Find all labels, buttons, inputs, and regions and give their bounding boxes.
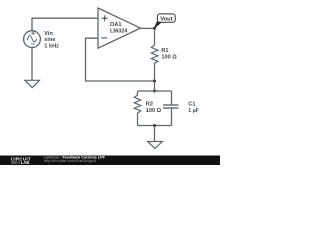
footer CircuitLab logo	[11, 157, 31, 165]
svg-text:R2: R2	[146, 102, 153, 108]
svg-text:R1: R1	[161, 48, 168, 54]
svg-text:Vout: Vout	[160, 16, 172, 22]
label R2 100 ohm	[146, 102, 162, 114]
resistor R1	[151, 28, 158, 81]
wire Vin bottom to ground	[31, 48, 33, 81]
wire top rail of parallel network	[138, 90, 172, 92]
svg-text:100 Ω: 100 Ω	[161, 54, 177, 60]
op-amp OA1 LM324	[98, 8, 141, 48]
junction node at op-amp output	[153, 27, 156, 30]
svg-text:http://circuitlab.com/c5uw3c4g: http://circuitlab.com/c5uw3c4gcz5	[44, 159, 96, 163]
ground (below V1)	[25, 80, 40, 87]
svg-text:1 μF: 1 μF	[188, 108, 199, 114]
wire feedback from - input down and right to R1 bottom	[86, 38, 155, 81]
svg-text:sine: sine	[44, 37, 55, 43]
label OA1 LM324	[110, 22, 128, 34]
wire op-amp output to node	[141, 27, 155, 29]
label C1 1 uF	[188, 102, 199, 114]
wire node down to parallel network	[154, 81, 156, 91]
label Vin sine 1 kHz	[44, 31, 59, 49]
svg-text:OA1: OA1	[110, 22, 122, 28]
label R1 100 ohm	[161, 48, 177, 60]
wire bottom rail of parallel network	[138, 125, 172, 127]
svg-text:Vin: Vin	[44, 31, 53, 37]
junction at feedback/R1 node	[153, 80, 156, 83]
junction at top rail	[153, 90, 156, 93]
junction at bottom rail	[153, 124, 156, 127]
svg-text:LM324: LM324	[110, 28, 128, 34]
node Vout flag	[154, 14, 175, 28]
footer bar	[0, 156, 220, 166]
svg-text:C1: C1	[188, 102, 195, 108]
footer caption text	[44, 155, 106, 163]
ground (below R2/C1)	[148, 142, 163, 149]
svg-text:100 Ω: 100 Ω	[146, 108, 162, 114]
capacitor C1	[163, 91, 178, 126]
svg-text:1 kHz: 1 kHz	[44, 43, 59, 49]
wire Vin top to op-amp + input	[32, 18, 98, 31]
voltage source V1 Vin	[24, 31, 41, 48]
svg-text:LAB: LAB	[21, 160, 30, 165]
resistor R2	[134, 91, 140, 126]
wire bottom rail to ground	[154, 126, 156, 142]
